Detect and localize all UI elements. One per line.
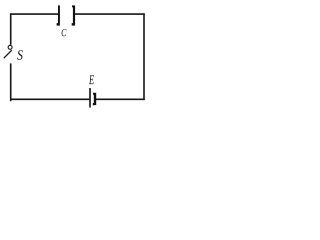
wire left side upper (to switch) <box>10 13 12 44</box>
wire bottom-right segment <box>96 98 145 100</box>
label C <box>62 29 67 36</box>
capacitor C1 left plate <box>57 5 60 25</box>
wire top-right segment <box>75 13 145 15</box>
label E <box>89 75 94 84</box>
label S <box>17 50 23 60</box>
wire top-left segment <box>10 13 58 15</box>
switch S blade <box>4 50 12 58</box>
wire left side lower (from switch) <box>10 63 12 101</box>
capacitor C1 right plate <box>72 5 75 25</box>
wire bottom-left segment <box>10 98 89 100</box>
battery E short thick plate (negative) <box>93 93 96 106</box>
battery E long plate (positive) <box>89 88 91 108</box>
switch S terminal circle <box>8 45 12 49</box>
wire right side <box>143 13 145 100</box>
